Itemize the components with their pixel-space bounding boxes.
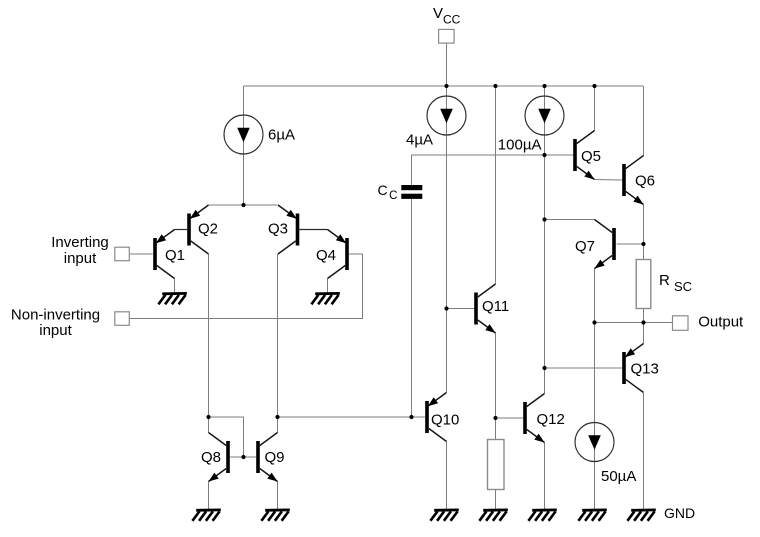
wire Q13 collector to ground bbox=[643, 393, 645, 509]
transistor Q10 bbox=[425, 393, 446, 442]
wire Q4 collector to ground bbox=[327, 279, 329, 293]
wire R1 to ground bbox=[495, 490, 497, 510]
terminal inverting input bbox=[115, 247, 130, 261]
transistor Q5 bbox=[573, 131, 594, 180]
wire Q3 collector down to Q9 bbox=[277, 254, 279, 417]
wire Cc top to 100uA node and Q5 base bbox=[412, 155, 574, 185]
transistor Q1 bbox=[153, 230, 174, 279]
svg-text:Q9: Q9 bbox=[265, 449, 285, 466]
ground (Q4 collector) bbox=[311, 293, 339, 304]
wire Q1 emitter to Q2 base bbox=[175, 229, 188, 231]
ground (Q13 collector, GND) bbox=[627, 510, 655, 521]
svg-text:R: R bbox=[659, 272, 670, 289]
wire to Rsc top bbox=[643, 244, 645, 260]
svg-text:GND: GND bbox=[664, 505, 695, 521]
wire Q7 base stub bbox=[617, 243, 644, 245]
transistor Q11 bbox=[474, 284, 495, 333]
ground (R1) bbox=[479, 510, 507, 521]
wire first stage output to Q10 base bbox=[278, 416, 412, 418]
svg-text:Q13: Q13 bbox=[631, 361, 659, 378]
wire inverting input to Q1 base bbox=[129, 253, 153, 255]
wire output line bbox=[595, 322, 673, 324]
node Q13 base junction bbox=[542, 366, 546, 370]
wire Q11 base stub bbox=[447, 308, 475, 310]
wire 100uA branch / Q12 collector bbox=[544, 86, 546, 394]
ground (50uA source) bbox=[578, 510, 606, 521]
wire Q8 collector bbox=[208, 417, 210, 433]
wire tail node Q2/Q3 emitters bbox=[209, 204, 278, 206]
wire 50uA branch to ground bbox=[594, 323, 596, 510]
wire VCC drop / 4uA branch to Q10 emitter bbox=[446, 43, 448, 393]
transistor Q9 bbox=[256, 433, 277, 482]
ground (Q8 emitter) bbox=[192, 510, 220, 521]
node rail-4uA junction bbox=[444, 84, 448, 88]
transistor Q3 bbox=[278, 205, 299, 254]
wire Q5 emitter to Q6 base bbox=[595, 179, 622, 182]
wire Q9 emitter to ground bbox=[277, 482, 279, 510]
svg-text:input: input bbox=[39, 322, 72, 339]
wire Q11 emitter to R1 bbox=[495, 333, 497, 440]
wire Q1 collector to ground bbox=[174, 279, 176, 293]
terminal non-inverting input bbox=[115, 312, 130, 326]
wire Q6 emitter down bbox=[643, 205, 645, 245]
node Q7 collector junction bbox=[542, 217, 546, 221]
transistor Q2 bbox=[187, 205, 208, 254]
svg-text:Q12: Q12 bbox=[537, 411, 565, 428]
terminal output bbox=[673, 316, 689, 331]
svg-text:4µA: 4µA bbox=[406, 132, 433, 149]
wire Q8 collector-base link bbox=[209, 417, 244, 457]
node Rsc-output junction bbox=[641, 320, 645, 324]
wire Q11 collector to rail bbox=[495, 86, 497, 284]
node Cc-Q10 base junction bbox=[409, 415, 413, 419]
ground (Q10 collector) bbox=[430, 510, 458, 521]
wire Q7 collector to 100uA node bbox=[545, 219, 595, 221]
svg-text:50µA: 50µA bbox=[601, 468, 636, 485]
transistor Q8 bbox=[209, 433, 230, 482]
wire Q5 collector to rail bbox=[594, 86, 596, 131]
wire non-inverting input to Q4 base bbox=[129, 254, 363, 319]
wire Q10 collector to ground bbox=[446, 442, 448, 510]
svg-text:Q7: Q7 bbox=[575, 238, 595, 255]
wire Q12 base stub bbox=[496, 417, 523, 419]
svg-text:Q1: Q1 bbox=[165, 247, 185, 264]
wire Q7 emitter to output line bbox=[594, 269, 596, 323]
svg-text:Q8: Q8 bbox=[201, 449, 221, 466]
node Q7 emitter-output junction bbox=[592, 320, 596, 324]
svg-text:Q10: Q10 bbox=[431, 411, 459, 428]
node rail-100uA junction bbox=[542, 84, 546, 88]
node Q7 base junction bbox=[641, 242, 645, 246]
wire Q13 base to Q12 collector node bbox=[545, 367, 622, 369]
svg-text:Inverting: Inverting bbox=[51, 234, 109, 251]
ground (Q9 emitter) bbox=[261, 510, 289, 521]
wire Q10 base stub bbox=[412, 416, 425, 418]
ground (Q12 emitter) bbox=[528, 510, 556, 521]
transistor Q6 bbox=[622, 156, 643, 205]
wire Cc bottom to Q10 base node bbox=[411, 199, 413, 417]
node tail junction bbox=[241, 203, 245, 207]
current source 4uA bbox=[427, 96, 466, 135]
terminal VCC bbox=[439, 29, 455, 43]
svg-text:Q5: Q5 bbox=[581, 148, 601, 165]
wire Q6 collector to rail bbox=[643, 86, 645, 156]
svg-text:Output: Output bbox=[698, 313, 744, 330]
transistor Q4 bbox=[328, 230, 349, 279]
node Q3-Q9 junction bbox=[275, 415, 279, 419]
wire Q12 emitter to ground bbox=[544, 443, 546, 510]
node rail-Q5 junction bbox=[592, 84, 596, 88]
ground (Q1 collector) bbox=[158, 293, 186, 304]
wire Rsc bottom to output bbox=[643, 309, 645, 323]
wire Q13 emitter to output bbox=[643, 323, 645, 344]
resistor R1 (Q11 emitter) bbox=[488, 440, 505, 490]
transistor Q13 bbox=[622, 344, 643, 393]
wire Q8 emitter to ground bbox=[208, 482, 210, 510]
wire VCC rail bbox=[244, 85, 644, 87]
svg-text:Q3: Q3 bbox=[268, 221, 288, 238]
node rail-Q11 junction bbox=[493, 84, 497, 88]
node Q8-Q9 base junction bbox=[241, 455, 245, 459]
wire 6uA branch bbox=[243, 86, 245, 205]
node 100uA-Q5 base junction bbox=[542, 153, 546, 157]
transistor Q7 bbox=[595, 220, 616, 269]
wire Q9 collector bbox=[277, 417, 279, 433]
node Q11 base junction bbox=[444, 306, 448, 310]
current source 6uA bbox=[224, 115, 263, 154]
svg-text:6µA: 6µA bbox=[268, 126, 295, 143]
svg-text:100µA: 100µA bbox=[498, 136, 542, 153]
wire Q2 collector down to Q8 bbox=[208, 254, 210, 417]
transistor Q12 bbox=[523, 394, 544, 443]
svg-text:Q4: Q4 bbox=[316, 247, 336, 264]
wire Q8/Q9 bases bbox=[230, 456, 256, 458]
capacitor Cc bbox=[401, 185, 422, 199]
current source 100uA bbox=[525, 96, 564, 135]
wire Q3 base to Q4 emitter bbox=[299, 229, 327, 231]
svg-text:Q6: Q6 bbox=[635, 172, 655, 189]
node Q2-Q8 junction bbox=[206, 415, 210, 419]
svg-text:SC: SC bbox=[674, 279, 692, 294]
svg-text:Q2: Q2 bbox=[198, 221, 218, 238]
svg-text:Non-inverting: Non-inverting bbox=[11, 307, 100, 324]
svg-text:input: input bbox=[64, 250, 97, 267]
current source 50uA bbox=[575, 423, 614, 462]
resistor Rsc bbox=[636, 260, 651, 309]
svg-text:Q11: Q11 bbox=[482, 298, 509, 315]
node Q12 base junction bbox=[493, 416, 497, 420]
